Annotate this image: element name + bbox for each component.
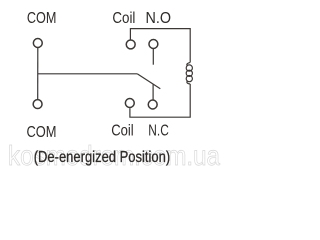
svg-text:(De-energized Position): (De-energized Position) bbox=[34, 149, 171, 166]
switch armature (moving contact) bbox=[137, 74, 160, 89]
wire N.C stem bbox=[152, 84, 154, 99]
terminal N.O bbox=[149, 40, 158, 49]
svg-text:Coil: Coil bbox=[111, 123, 134, 140]
svg-text:COM: COM bbox=[27, 124, 57, 141]
svg-text:N.O: N.O bbox=[146, 10, 172, 27]
terminal COM (bottom) bbox=[33, 100, 42, 109]
terminal N.C bbox=[148, 100, 157, 109]
inductor L1 bbox=[187, 62, 190, 65]
wire coil top lead bbox=[130, 29, 190, 63]
svg-text:Coil: Coil bbox=[112, 10, 135, 27]
terminal Coil (bottom) bbox=[125, 99, 134, 108]
svg-text:COM: COM bbox=[27, 10, 57, 27]
svg-text:N.C: N.C bbox=[148, 123, 169, 140]
terminal Coil (top) bbox=[126, 40, 135, 49]
wire coil bottom lead bbox=[130, 84, 190, 117]
wire COM vertical bbox=[37, 48, 39, 99]
wire N.O stem bbox=[152, 49, 154, 65]
terminal COM (top) bbox=[33, 39, 42, 48]
wire common feed horizontal bbox=[38, 73, 137, 75]
